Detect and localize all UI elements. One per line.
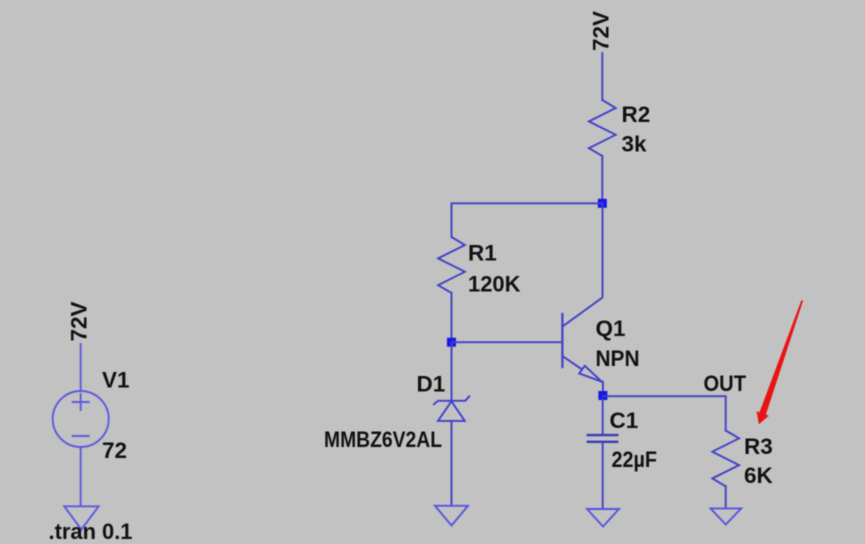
wire C1 bottom lead: [602, 443, 604, 509]
transistor Q1 emitter leg: [562, 356, 581, 369]
capacitor C1 top lead: [602, 400, 604, 435]
ground (V1): [64, 506, 98, 529]
wire base node to D1 cathode: [451, 342, 453, 401]
resistor R3: [712, 431, 739, 487]
svg-text:D1: D1: [417, 372, 446, 397]
svg-text:120K: 120K: [468, 272, 521, 297]
svg-text:Q1: Q1: [596, 316, 626, 341]
wire R2 bottom to collector node: [601, 156, 603, 203]
svg-text:R2: R2: [622, 102, 651, 127]
wire Q1 emitter to OUT node: [602, 382, 603, 396]
junction OUT node: [598, 391, 607, 400]
svg-text:MMBZ6V2AL: MMBZ6V2AL: [324, 427, 442, 452]
zener diode D1 anode triangle: [438, 401, 465, 421]
svg-text:NPN: NPN: [596, 346, 640, 371]
svg-text:OUT: OUT: [704, 371, 747, 396]
resistor R2: [589, 100, 616, 156]
wire D1 anode to ground: [451, 421, 453, 506]
ground (D1): [435, 506, 468, 526]
svg-text:6K: 6K: [744, 463, 774, 488]
ground (C1): [587, 509, 619, 527]
junction base node: [447, 338, 456, 347]
transistor Q1 base bar: [561, 314, 563, 367]
wire V1 top lead: [80, 344, 82, 391]
svg-text:R1: R1: [468, 241, 497, 266]
svg-text:22µF: 22µF: [612, 447, 658, 472]
svg-text:.tran 0.1: .tran 0.1: [49, 519, 133, 544]
voltage source V1: [53, 391, 109, 447]
capacitor C1 plates: [588, 435, 617, 442]
junction collector node: [598, 199, 607, 208]
wire collector node to R1 top: [452, 203, 603, 237]
wire base node to Q1 base: [452, 341, 563, 343]
svg-text:72: 72: [102, 438, 127, 463]
svg-text:3k: 3k: [622, 132, 648, 157]
svg-text:R3: R3: [744, 434, 773, 459]
transistor Q1 collector leg: [562, 203, 602, 326]
svg-text:V1: V1: [102, 368, 130, 393]
zener diode D1 cathode bar: [434, 396, 469, 404]
wire R3 bottom to ground: [725, 486, 727, 508]
ground (R3): [711, 508, 742, 524]
wire 72V to R2: [601, 53, 603, 100]
wire OUT node to R3: [603, 396, 726, 430]
svg-text:C1: C1: [610, 408, 639, 433]
wire R1 bottom to base node: [451, 293, 453, 342]
svg-text:72V: 72V: [589, 11, 614, 51]
resistor R1: [438, 237, 465, 293]
wire V1 bottom lead: [80, 447, 82, 506]
annotation red arrow pointing at R3: [757, 300, 804, 424]
transistor Q1 emitter arrowhead: [579, 366, 602, 382]
svg-text:72V: 72V: [67, 301, 92, 341]
